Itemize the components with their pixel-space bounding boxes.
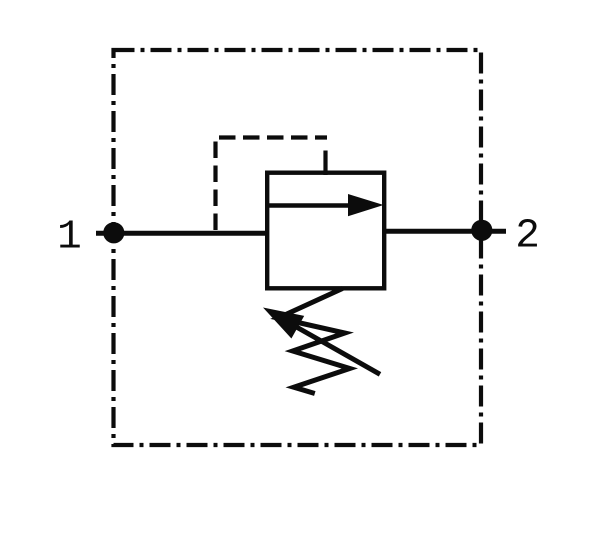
node: port 2 junction dot	[471, 220, 492, 241]
wire: main line left (port 1 to valve body)	[96, 231, 267, 236]
adjustment arrow shaft across spring	[285, 321, 380, 375]
svg-text:2: 2	[515, 213, 540, 259]
svg-text:1: 1	[57, 214, 82, 260]
valve body square	[267, 173, 384, 289]
adjustment arrowhead	[263, 308, 304, 339]
flow path arrow shaft inside valve	[268, 203, 353, 208]
pilot line solid stub into valve top	[323, 151, 327, 176]
adjustable spring zigzag	[278, 289, 350, 394]
node: port 1 junction dot	[103, 222, 124, 243]
enclosure dash-dot boundary box	[114, 50, 482, 445]
pilot line (dashed) from main line up and over to valve top	[216, 138, 328, 232]
wire: main line right (valve body to port 2)	[384, 229, 506, 234]
flow path arrowhead	[348, 194, 384, 216]
